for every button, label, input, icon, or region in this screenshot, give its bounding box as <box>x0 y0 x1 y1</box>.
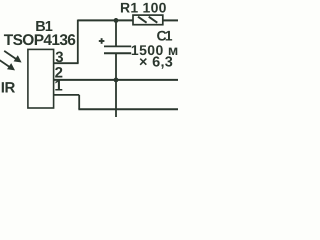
wire top rail right segment <box>163 19 178 21</box>
junction dot at top rail / C1 <box>114 18 119 23</box>
svg-text:× 6,3: × 6,3 <box>139 55 173 71</box>
resistor R1 body <box>133 15 163 25</box>
photodetector B1 body <box>28 49 54 108</box>
svg-text:1: 1 <box>54 78 62 95</box>
svg-text:R1 100: R1 100 <box>120 0 167 15</box>
svg-text:TSOP4136: TSOP4136 <box>4 32 77 49</box>
resistor R1 power-rating slashes <box>138 17 157 23</box>
svg-text:3: 3 <box>55 49 63 66</box>
wire top rail left segment <box>78 19 134 21</box>
svg-text:C1: C1 <box>157 27 173 43</box>
wire capacitor top lead <box>115 20 117 46</box>
wire bottom rail <box>78 108 178 110</box>
svg-text:IR: IR <box>1 79 16 96</box>
wire vertical from top rail to pin 3 <box>77 20 79 64</box>
IR arrow 1 <box>4 51 21 63</box>
capacitor C1 top plate <box>104 45 131 47</box>
wire pin 2 rail <box>54 79 179 81</box>
capacitor polarity plus sign <box>99 38 105 44</box>
wire pin 3 <box>54 62 79 64</box>
IR arrow 2 <box>0 60 15 71</box>
wire pin 1 <box>54 94 80 96</box>
wire capacitor bottom lead <box>115 53 117 117</box>
wire vertical pin1 to bottom rail <box>78 95 80 109</box>
capacitor C1 bottom plate <box>104 52 131 54</box>
junction dot at pin2 rail / C1 <box>114 78 119 83</box>
